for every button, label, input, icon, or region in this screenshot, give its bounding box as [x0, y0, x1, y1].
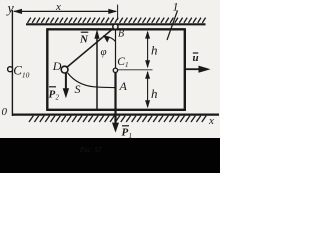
leader line for 1 [167, 11, 178, 41]
svg-text:N: N [79, 34, 89, 46]
rod BD [66, 27, 116, 68]
u velocity arrow [186, 68, 202, 70]
svg-text:h: h [151, 86, 158, 101]
svg-text:P: P [49, 89, 56, 101]
C10 point on y axis [8, 67, 13, 72]
dimension extension line at B [117, 5, 119, 20]
N force arrow [96, 36, 98, 110]
ball D [61, 66, 68, 73]
svg-text:Рис. 57: Рис. 57 [79, 146, 102, 154]
svg-text:D: D [52, 59, 62, 73]
svg-text:2: 2 [56, 94, 60, 102]
ceiling line [26, 23, 206, 25]
paper background [0, 0, 220, 139]
vertical line B to C1 [115, 27, 117, 68]
floor hatching [29, 116, 206, 122]
y axis [11, 10, 13, 116]
svg-text:x: x [208, 115, 214, 127]
svg-text:A: A [119, 79, 128, 93]
plate 1 (rectangle) [47, 28, 185, 111]
C1 point [113, 68, 117, 72]
svg-text:x: x [55, 1, 61, 13]
P1 label [122, 126, 133, 140]
top dimension line x [13, 9, 117, 14]
svg-text:u: u [193, 52, 199, 64]
phi angle arc [105, 36, 115, 41]
svg-text:1: 1 [129, 132, 133, 140]
black caption strip [0, 138, 220, 173]
svg-text:φ: φ [101, 46, 107, 58]
P2 force arrow [65, 73, 67, 91]
trajectory arc D to A [68, 73, 116, 88]
h dimension lower [145, 71, 150, 109]
x axis [12, 113, 219, 115]
P2 label [49, 87, 60, 102]
svg-text:h: h [151, 43, 158, 58]
pivot B [113, 24, 118, 29]
svg-text:0: 0 [2, 106, 8, 118]
svg-text:S: S [75, 82, 81, 96]
faint caption remnants [79, 146, 102, 154]
C1 level tick line [118, 69, 153, 71]
svg-text:P: P [122, 127, 129, 139]
svg-text:B: B [118, 29, 124, 40]
h dimension upper [145, 31, 150, 69]
u label [193, 52, 199, 64]
svg-text:y: y [6, 2, 15, 17]
ceiling hatching [28, 18, 206, 23]
P1 force arrow [114, 73, 116, 125]
